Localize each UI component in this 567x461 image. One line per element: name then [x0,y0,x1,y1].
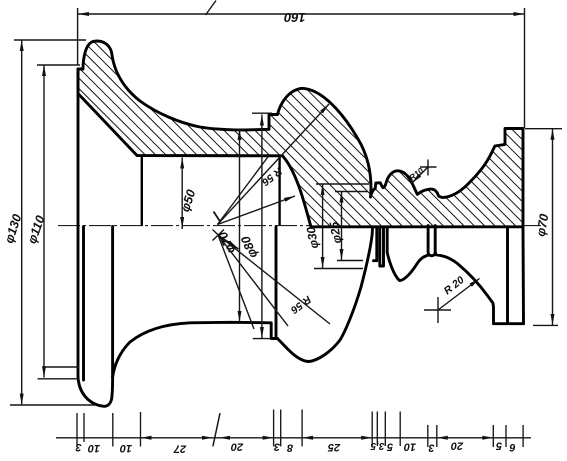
svg-text:3: 3 [274,441,280,453]
svg-text:5: 5 [386,441,393,453]
svg-text:R 56: R 56 [288,293,313,316]
svg-text:10: 10 [403,441,416,453]
svg-text:R 20: R 20 [442,274,467,297]
svg-text:160: 160 [283,10,305,25]
svg-text:φ30: φ30 [304,225,322,249]
svg-text:25: 25 [327,441,341,453]
svg-text:20: 20 [230,441,244,453]
svg-text:φ70: φ70 [534,213,552,238]
svg-text:3: 3 [75,441,81,453]
svg-text:20: 20 [450,440,464,452]
svg-text:10: 10 [87,442,100,454]
svg-text:10: 10 [119,442,132,454]
svg-text:27: 27 [173,443,187,455]
svg-text:φ80: φ80 [238,234,260,260]
svg-text:6: 6 [509,441,516,453]
svg-text:3: 3 [428,442,434,454]
svg-text:φ50: φ50 [178,188,198,214]
svg-text:8: 8 [286,442,293,454]
svg-text:5: 5 [495,440,502,452]
svg-text:3,5: 3,5 [370,440,384,451]
